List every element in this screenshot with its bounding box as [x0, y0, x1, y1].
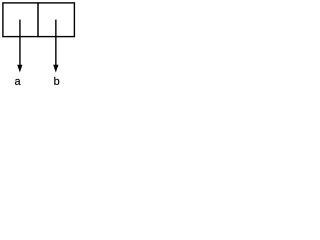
- right pointer shaft: [55, 20, 57, 66]
- label b: [54, 77, 59, 85]
- label a: [15, 79, 21, 85]
- pair box outline: [3, 3, 75, 37]
- right arrowhead: [53, 65, 58, 73]
- cell divider: [37, 2, 39, 37]
- left pointer shaft: [19, 20, 21, 66]
- background: [0, 0, 76, 90]
- left arrowhead: [17, 65, 22, 73]
